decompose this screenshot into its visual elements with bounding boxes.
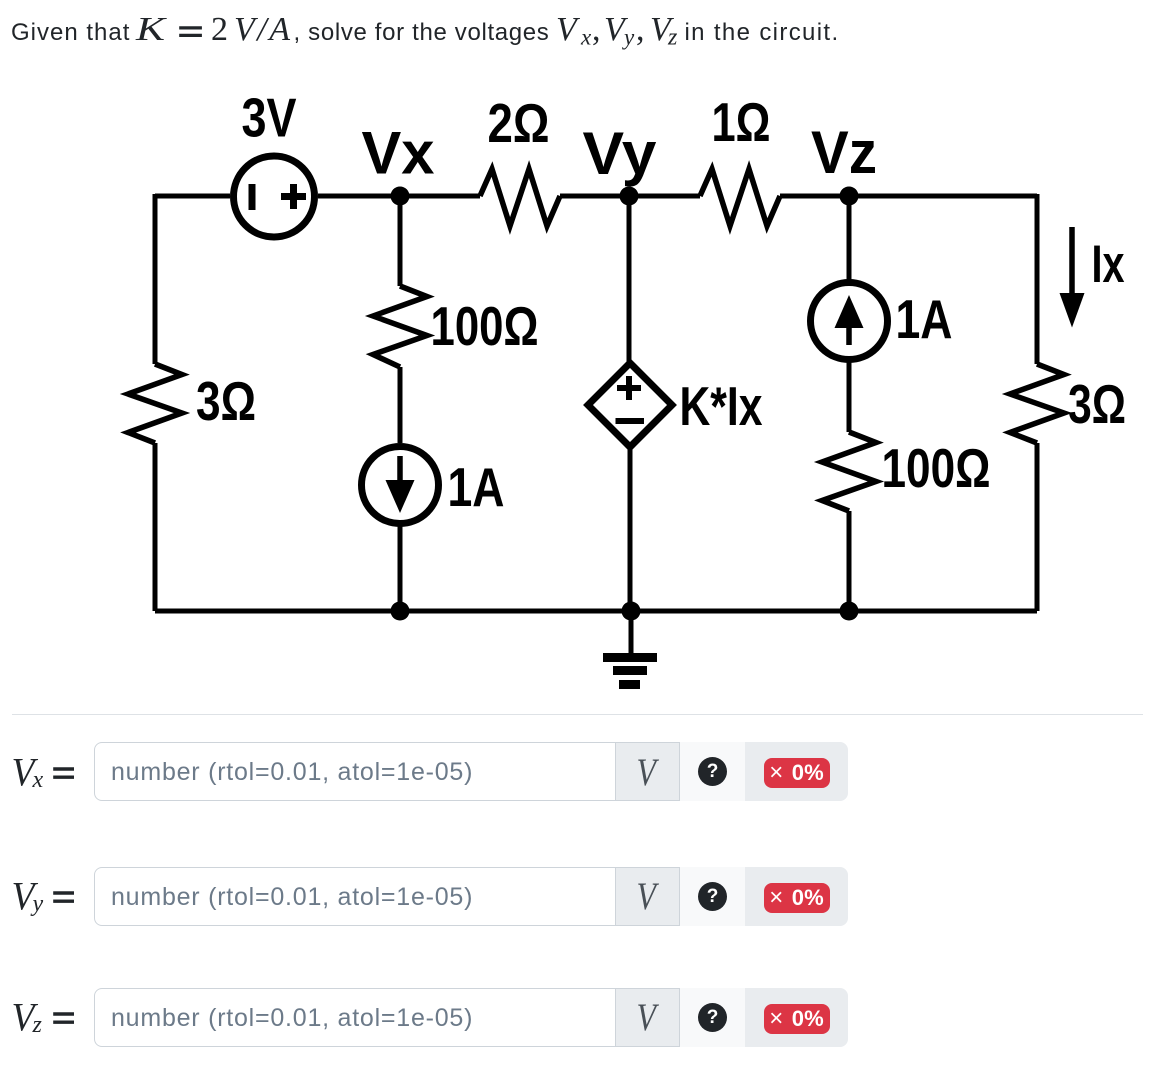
wire top-left from corner to voltage source: [155, 194, 230, 199]
svg-text:100Ω: 100Ω: [882, 437, 991, 499]
answer row Vz: [94, 988, 848, 1047]
answer row Vx: [94, 742, 848, 801]
svg-text:z: z: [667, 25, 678, 51]
svg-text:,: ,: [636, 11, 645, 48]
answer row Vy: [94, 867, 848, 926]
svg-text:, solve for the voltages: , solve for the voltages: [294, 19, 550, 46]
wire resistor to node Vy: [560, 194, 700, 199]
node Vy dot: [620, 187, 639, 206]
svg-text:y: y: [31, 891, 44, 917]
wire Vy column upper: [627, 196, 632, 363]
svg-text:3V: 3V: [242, 87, 297, 149]
wire left edge upper: [153, 194, 158, 364]
ground bar 3: [619, 680, 640, 689]
ground bar 1: [603, 653, 657, 662]
voltage source plus sign: [281, 184, 306, 209]
separator: [12, 714, 1143, 715]
svg-text:V/A: V/A: [234, 11, 292, 48]
svg-text:Vx: Vx: [362, 120, 435, 187]
wire bottom rail: [155, 609, 1037, 614]
resistor R4 100ohm (vertical zigzag): [822, 432, 876, 511]
dependent source plus sign: [617, 376, 641, 400]
voltage source minus bar: [249, 184, 256, 210]
current arrow Ix: [1069, 227, 1075, 297]
voltage source V1 3V circle: [234, 156, 315, 237]
svg-text:3Ω: 3Ω: [196, 370, 256, 432]
svg-text:in the circuit.: in the circuit.: [685, 19, 840, 46]
junction dot bottom Vz: [840, 602, 859, 621]
dependent source minus sign: [616, 418, 645, 424]
wire Vy column lower: [628, 447, 633, 611]
svg-text:3Ω: 3Ω: [1068, 373, 1126, 435]
wire Vx column middle: [398, 367, 403, 443]
svg-text:Vy: Vy: [583, 120, 658, 187]
wire right edge lower: [1035, 443, 1040, 611]
wire Vx column lower: [398, 523, 403, 611]
resistor R1 2ohm (horizontal zigzag): [480, 169, 560, 226]
wire left edge lower: [153, 443, 158, 611]
wire Vz column middle: [847, 360, 852, 432]
resistor R-right 3ohm (vertical zigzag): [1010, 364, 1064, 443]
ground stem: [629, 611, 634, 653]
svg-text:,: ,: [592, 11, 601, 48]
svg-text:2: 2: [211, 11, 228, 48]
resistor R3 100ohm (vertical zigzag): [373, 286, 427, 367]
dependent source E1 K*Ix (diamond): [588, 363, 672, 447]
wire Vz column lower: [847, 511, 852, 611]
current source I1 arrow down: [397, 456, 403, 484]
wire Vx column upper: [398, 196, 403, 286]
svg-text:2Ω: 2Ω: [488, 92, 550, 154]
resistor R2 1ohm (horizontal zigzag): [700, 169, 780, 226]
svg-text:V: V: [637, 875, 660, 918]
svg-text:V: V: [637, 751, 660, 794]
svg-text:1A: 1A: [896, 288, 953, 350]
wire right edge upper: [1035, 194, 1040, 364]
junction dot bottom Vy: [622, 602, 641, 621]
svg-text:1A: 1A: [448, 456, 505, 518]
svg-text:K*Ix: K*Ix: [680, 375, 763, 437]
node Vx dot: [391, 187, 410, 206]
svg-text:V: V: [637, 996, 660, 1039]
current source I2 arrow up: [846, 318, 852, 345]
svg-text:y: y: [622, 25, 635, 50]
svg-text:x: x: [580, 25, 592, 50]
svg-text:1Ω: 1Ω: [712, 91, 771, 153]
wire source to node Vx: [318, 194, 480, 199]
wire resistor to node Vz and top-right corner: [780, 194, 1037, 199]
wire Vz column upper: [847, 196, 852, 280]
node Vz dot: [840, 187, 859, 206]
svg-text:Vz: Vz: [811, 119, 877, 186]
junction dot bottom Vx: [391, 602, 410, 621]
svg-text:Given that: Given that: [11, 19, 130, 46]
svg-text:100Ω: 100Ω: [431, 295, 539, 357]
svg-text:Ix: Ix: [1092, 235, 1125, 294]
svg-text:K: K: [135, 11, 168, 48]
resistor R-left 3ohm (vertical zigzag): [128, 364, 182, 443]
ground bar 2: [613, 666, 647, 675]
current source I1 1A (down) circle: [362, 447, 439, 524]
svg-text:z: z: [32, 1012, 43, 1038]
svg-text:V: V: [556, 11, 581, 48]
svg-text:x: x: [32, 767, 44, 793]
current source I2 1A (up) circle: [811, 283, 888, 360]
question math =: [179, 28, 202, 36]
